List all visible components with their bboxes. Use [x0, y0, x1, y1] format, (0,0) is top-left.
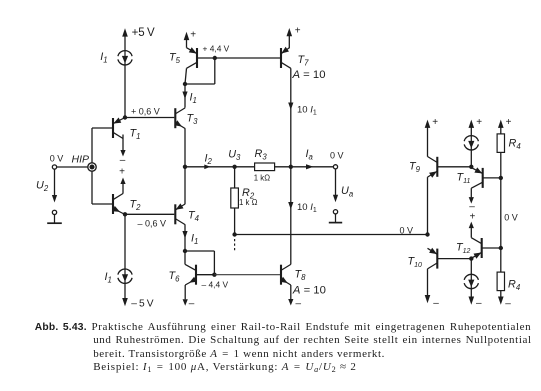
caption line 1	[35, 321, 532, 333]
T7 emitter supply + arrow	[288, 36, 290, 48]
svg-text:T11: T11	[457, 172, 471, 186]
transistor T10	[436, 249, 438, 269]
svg-text:R3: R3	[255, 148, 268, 162]
wire: 0V divider	[500, 178, 502, 248]
svg-text:A = 10: A = 10	[292, 284, 326, 296]
svg-text:I1: I1	[100, 51, 107, 65]
current source I1 (top left)	[118, 51, 132, 57]
wire with I1 current arrow down to T3	[184, 84, 186, 108]
node U3	[232, 165, 236, 169]
current source I1 (bottom left)	[118, 269, 132, 275]
wire: T2 base	[92, 203, 113, 205]
wire: internal 0V rail to right circuit	[235, 234, 428, 236]
svg-text:0 V: 0 V	[504, 212, 518, 222]
wire: output node down with 10I1 arrow to T8	[290, 167, 292, 265]
power + arrow (T9 collector)	[425, 120, 431, 128]
wire: R2 to 0V rail node	[234, 208, 236, 235]
node I2 (T3/T4 emitters)	[183, 165, 187, 169]
resistor R4 (bottom)	[500, 248, 502, 272]
node T5 collector	[183, 82, 187, 86]
svg-text:0 V: 0 V	[400, 226, 414, 236]
wire: T9 base to node	[437, 166, 471, 168]
T8 emitter to - supply	[290, 285, 292, 299]
svg-text:+: +	[432, 117, 438, 128]
node T4/T6	[183, 249, 187, 253]
current source (right bottom)	[470, 259, 472, 275]
svg-text:+: +	[119, 166, 125, 177]
wire: T12 base to 0V divider node	[482, 247, 501, 249]
caption line 2	[93, 334, 532, 346]
wire: R3 to output node	[275, 166, 291, 168]
transistor T7	[280, 48, 282, 68]
transistor T12	[481, 238, 483, 258]
source U2 arrow	[54, 169, 56, 196]
dashed stub below 0V node	[234, 239, 236, 252]
svg-text:T5: T5	[169, 52, 181, 66]
power + arrow (current source top right)	[469, 120, 475, 128]
svg-text:Ua: Ua	[341, 185, 354, 199]
svg-text:T9: T9	[409, 161, 421, 175]
svg-text:T10: T10	[408, 256, 423, 270]
ground below Ua	[335, 214, 337, 223]
svg-text:1 k Ω: 1 k Ω	[239, 198, 258, 207]
svg-text:T4: T4	[188, 210, 200, 224]
svg-text:+: +	[190, 29, 196, 40]
svg-text:1 kΩ: 1 kΩ	[254, 173, 270, 182]
svg-text:T2: T2	[130, 199, 142, 213]
wire: T4 collector down with I1 arrow	[184, 225, 186, 252]
input rail wire T1-base to T2-base	[91, 128, 93, 204]
wire: T5 base to node 4,4V	[197, 57, 215, 59]
svg-text:A = 10: A = 10	[292, 69, 326, 81]
power +5V supply arrow	[122, 28, 128, 36]
wire: T1 base	[92, 127, 113, 129]
power + arrow (R4 top)	[498, 120, 504, 128]
wire: diode loop T5 (down)	[214, 58, 216, 84]
wire: diode loop T6 (down)	[213, 251, 215, 275]
wire: R4 to divider node	[500, 152, 502, 178]
node A (+0.6V)	[123, 115, 127, 119]
node +4,4V	[213, 56, 217, 60]
svg-text:– 5 V: – 5 V	[131, 299, 153, 310]
wire: T9 emitter down to 0V node	[427, 177, 429, 234]
svg-text:–: –	[189, 299, 195, 310]
node R2/0V rail	[232, 232, 236, 236]
transistor T4	[174, 204, 176, 224]
svg-text:T12: T12	[456, 242, 471, 256]
wire: input terminal to HIP node	[57, 166, 89, 168]
wire: node B down to current source	[124, 214, 126, 269]
wire: output node to terminal	[291, 166, 334, 168]
T5 emitter supply + arrow	[186, 40, 188, 48]
current source (right top)	[464, 136, 478, 142]
node T10-base/T12-emitter	[469, 256, 473, 260]
svg-text:+ 0,6 V: + 0,6 V	[131, 107, 160, 117]
svg-text:T8: T8	[295, 269, 307, 283]
wire I2 with current arrow	[185, 166, 255, 168]
wire: T7 collector down with 10I1 arrow	[290, 68, 292, 167]
transistor T6	[195, 265, 197, 285]
resistor R3	[255, 163, 275, 171]
svg-text:HIP: HIP	[72, 154, 90, 166]
R4 bottom to - supply	[500, 291, 502, 298]
svg-text:I1: I1	[105, 271, 112, 285]
svg-text:+: +	[470, 211, 476, 222]
svg-text:R4: R4	[509, 138, 522, 152]
svg-text:–: –	[433, 298, 439, 309]
supply stub - below T1 collector	[122, 135, 124, 151]
node T9-base/T11-emitter	[469, 165, 473, 169]
caption line 4	[93, 361, 356, 373]
transistor T3	[174, 108, 176, 128]
svg-text:+: +	[506, 117, 512, 128]
svg-text:T6: T6	[169, 270, 181, 284]
svg-text:0 V: 0 V	[50, 154, 64, 164]
wire: node A to T3 base	[125, 117, 174, 119]
svg-text:– 4,4 V: – 4,4 V	[202, 280, 229, 290]
wire: node down to T6 collector	[184, 251, 186, 265]
transistor T2	[112, 194, 114, 214]
svg-text:Ia: Ia	[306, 148, 314, 162]
svg-text:I1: I1	[191, 232, 198, 246]
svg-text:T7: T7	[298, 54, 310, 68]
terminal below Ua	[333, 210, 337, 214]
terminal below U2	[52, 210, 56, 214]
wire: current source to node A	[124, 64, 126, 117]
wire: diode loop T6 (right)	[185, 250, 214, 252]
svg-text:10 I1: 10 I1	[297, 104, 317, 116]
transistor T8	[280, 265, 282, 285]
wire: T3 emitter down to I2 node	[184, 128, 186, 167]
node HIP (concentric)	[88, 163, 96, 171]
T11 collector to - stub	[470, 188, 472, 197]
transistor T1	[112, 118, 114, 138]
transistor T9	[436, 157, 438, 177]
svg-text:– 0,6 V: – 0,6 V	[138, 218, 167, 228]
caption line 3	[93, 348, 385, 360]
svg-text:T1: T1	[130, 128, 141, 142]
svg-text:R4: R4	[508, 279, 521, 293]
wire: source to node	[470, 149, 472, 167]
svg-text:10 I1: 10 I1	[297, 202, 317, 214]
wire: T10 base to node	[437, 258, 471, 260]
svg-text:–: –	[476, 298, 482, 309]
svg-text:U3: U3	[228, 149, 241, 163]
svg-text:0 V: 0 V	[330, 150, 344, 160]
wire: T6 base to node	[196, 274, 214, 276]
svg-text:U2: U2	[36, 180, 49, 194]
ground below U2	[54, 215, 56, 224]
svg-text:I2: I2	[205, 153, 213, 167]
transistor T11	[482, 168, 484, 188]
svg-text:T3: T3	[187, 113, 199, 127]
svg-text:+ 4,4 V: + 4,4 V	[203, 44, 230, 54]
node output	[289, 165, 293, 169]
T6 emitter to - supply	[184, 285, 186, 299]
wire: T6 base node to T8 base	[214, 274, 281, 276]
node T6 base	[212, 273, 216, 277]
svg-text:+: +	[295, 26, 301, 37]
resistor R2	[231, 188, 239, 208]
resistor R4 (top)	[497, 134, 504, 153]
output terminal	[333, 165, 337, 169]
node divider top	[499, 176, 503, 180]
node 0V input (left column)	[425, 232, 429, 236]
node divider bottom	[499, 246, 503, 250]
wire: diode loop T5 (left)	[185, 83, 215, 85]
node B (-0.6V)	[123, 212, 127, 216]
svg-text:–: –	[296, 299, 302, 310]
svg-text:+5 V: +5 V	[132, 27, 155, 39]
svg-text:I1: I1	[190, 92, 197, 106]
wire: T5 collector to node	[185, 68, 187, 84]
source Ua arrow	[335, 169, 337, 195]
wire: node 4,4V to T7 base	[215, 57, 281, 59]
wire + power -5V arrow	[124, 283, 126, 300]
svg-text:–: –	[505, 298, 511, 309]
transistor T5	[196, 48, 198, 68]
svg-text:+: +	[476, 117, 482, 128]
wire: I2 node down to T4 emitter	[184, 167, 186, 204]
T10 collector to - supply	[427, 269, 429, 296]
wire: U3 down to R2	[234, 167, 236, 188]
svg-text:–: –	[120, 155, 126, 166]
wire: T11 base to 0V divider node	[483, 177, 501, 179]
wire: node B to T4 base	[125, 213, 174, 215]
